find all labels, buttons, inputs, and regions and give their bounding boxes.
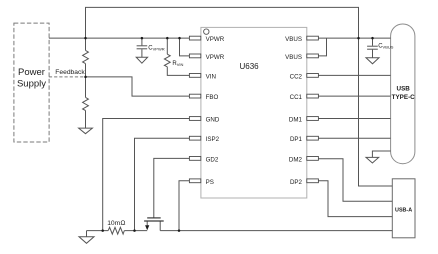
svg-text:Feedback: Feedback <box>55 69 85 76</box>
svg-text:FBO: FBO <box>206 94 219 101</box>
svg-text:GD2: GD2 <box>206 156 219 163</box>
svg-text:VBUS: VBUS <box>285 36 302 43</box>
svg-text:CVPWR: CVPWR <box>148 46 164 52</box>
svg-text:PS: PS <box>206 179 214 186</box>
svg-text:RVIN: RVIN <box>172 61 183 67</box>
svg-text:DM1: DM1 <box>289 117 303 124</box>
svg-text:U636: U636 <box>240 62 260 71</box>
svg-text:TYPE-C: TYPE-C <box>392 94 416 101</box>
svg-text:CC1: CC1 <box>290 94 303 101</box>
svg-text:USB-A: USB-A <box>395 207 412 213</box>
svg-text:VPWR: VPWR <box>206 54 225 61</box>
svg-text:10mΩ: 10mΩ <box>107 220 125 227</box>
svg-text:Power: Power <box>18 67 45 78</box>
svg-text:CC2: CC2 <box>290 73 303 80</box>
svg-text:VPWR: VPWR <box>206 36 225 43</box>
svg-text:DP2: DP2 <box>290 179 303 186</box>
svg-text:DM2: DM2 <box>289 156 303 163</box>
svg-text:DP1: DP1 <box>290 136 303 143</box>
svg-text:Supply: Supply <box>17 79 46 90</box>
svg-text:USB: USB <box>397 86 411 93</box>
svg-text:VIN: VIN <box>206 73 216 80</box>
svg-text:VBUS: VBUS <box>285 54 302 61</box>
svg-text:ISP2: ISP2 <box>206 136 220 143</box>
svg-text:CVBUS: CVBUS <box>378 44 394 50</box>
svg-text:GND: GND <box>206 117 220 124</box>
